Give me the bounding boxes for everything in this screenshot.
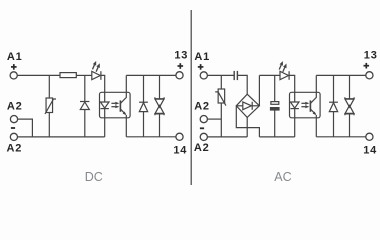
resistor R1 [60,73,76,78]
polarity marks [11,63,369,128]
DC- bottom rail wire [259,136,294,138]
jumper wire A2 upper to lower rail [18,119,33,137]
optocoupler U1 LED [100,102,109,109]
terminal A2 lower (DC) [10,133,17,140]
wire A1 to resistor [17,74,60,76]
plus mark A1 (AC) [198,64,204,70]
bridge rectifier BR1 diamond [236,94,259,117]
wire A1 to capacitor [207,74,234,76]
varistor column wire bottom (AC) [220,103,222,137]
TVS suppressor Z1 [155,97,164,115]
optocoupler U2 LED [290,102,299,109]
output top rail wire [126,74,176,76]
svg-text:A2: A2 [194,142,210,154]
LED D4 light arrows [279,61,286,72]
svg-text:14: 14 [173,144,187,156]
plus mark 13 (AC) [364,63,370,69]
svg-text:A1: A1 [7,51,23,63]
varistor column wire bottom [48,113,50,137]
varistor RV1 [45,98,56,114]
TVS column wire bottom (AC) [349,114,351,137]
svg-text:A2: A2 [194,100,210,112]
protection diode column wire top [84,75,86,101]
bridge DC- step wire [236,106,259,137]
wire resistor to diode node [76,74,92,76]
terminal 13 (DC) [176,72,183,79]
smoothing capacitor C2 leads [274,75,276,101]
terminal 14 (DC) [176,133,183,140]
svg-text:14: 14 [363,144,377,156]
varistor column wire top [48,75,50,98]
svg-text:A2: A2 [7,142,23,154]
svg-text:13: 13 [364,50,378,62]
LED D1 indicator (series) [92,71,101,80]
wire LED to optocoupler anode [101,75,105,102]
protection diode D2 [80,102,89,110]
terminal A2 upper (DC) [10,116,17,123]
optocoupler U1 light arrows [111,102,119,109]
varistor column wire top (AC) [220,75,222,89]
output diode D3 [139,102,148,111]
LED D1 light arrows [93,61,100,72]
TVS column wire top [159,75,161,98]
terminal 13 (AC) [366,72,373,79]
terminal A2 lower (AC) [200,133,207,140]
bridge AC2 wire (bottom corner) [246,117,248,136]
svg-text:A1: A1 [194,51,210,63]
varistor RV2 [215,89,226,106]
svg-text:A2: A2 [7,100,23,112]
LED D4 indicator (series, AC) [280,71,289,80]
TVS column wire top (AC) [349,75,351,98]
output bottom rail wire [126,136,176,138]
terminal A1 (DC) [10,72,17,79]
output diode D5 [329,102,338,111]
output diode column wire top (AC) [333,75,335,102]
optocoupler U2 box [290,92,321,118]
terminal 14 (AC) [366,133,373,140]
TVS suppressor Z2 [345,97,354,115]
bridge rectifier BR1 diode [236,102,259,110]
wire A2 upper to varistor column [207,118,221,120]
plus mark 13 (DC) [178,63,184,69]
divider line between DC and AC sections [190,10,192,185]
input bottom rail wire (AC) [207,136,247,138]
svg-text:DC: DC [85,170,103,184]
wire capacitor to bridge [237,75,247,94]
minus mark A2 (DC) [11,127,15,129]
optocoupler U2 phototransistor [310,75,316,115]
wire LED to optocoupler anode (AC) [289,75,295,102]
svg-text:13: 13 [174,50,188,62]
optocoupler U1 phototransistor [120,75,126,115]
DC+ top rail wire [259,74,280,76]
output diode column wire bottom [143,112,145,137]
TVS column wire bottom [159,114,161,137]
optocoupler U2 light arrows [301,102,309,109]
series capacitor C1 [234,71,237,80]
svg-text:AC: AC [274,170,291,184]
optocoupler U2 LED cathode wire [294,109,296,137]
output diode column wire bottom (AC) [333,112,335,137]
terminal A2 upper (AC) [200,116,207,123]
optocoupler LED cathode wire [104,109,106,137]
smoothing capacitor C2 [271,102,280,110]
protection diode column wire bottom [84,110,86,137]
terminal A1 (AC) [200,72,207,79]
optocoupler U1 box [100,92,131,118]
output bottom rail wire (AC) [316,136,366,138]
plus mark A1 (DC) [11,64,17,70]
input bottom rail wire [18,136,105,138]
emitter wire down (AC) [315,115,317,137]
minus mark A2 (AC) [200,127,204,129]
bridge DC+ riser wire [258,75,260,105]
output diode column wire top [143,75,145,102]
emitter wire down [125,115,127,137]
output top rail wire (AC) [316,74,366,76]
